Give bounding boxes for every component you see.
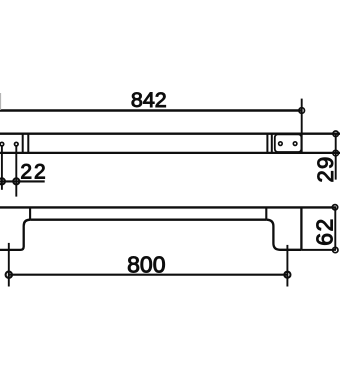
dim 29 line bbox=[335, 134, 337, 180]
svg-text:22: 22 bbox=[20, 161, 47, 184]
dim 842 right terminator bbox=[299, 108, 305, 114]
dim 62 terminator 2 bbox=[333, 247, 338, 252]
dim 22 line bbox=[0, 180, 45, 182]
dim 29 terminator 1 bbox=[333, 131, 339, 137]
left bracket line 1 bbox=[22, 134, 24, 153]
dim 800 left extension line bbox=[8, 243, 10, 287]
dim 22 extension line 2 bbox=[15, 146, 17, 196]
dim 29 terminator 2 bbox=[333, 150, 339, 156]
dim 800 right extension line bbox=[286, 245, 288, 287]
dim 842 right extension line bbox=[301, 99, 303, 153]
plan right step line bbox=[265, 207, 267, 219]
dim 842 line bbox=[0, 109, 302, 111]
left plate screw hole 2 bbox=[14, 142, 18, 146]
plan right post outline bbox=[266, 220, 301, 250]
dim 62 terminator 1 bbox=[332, 205, 337, 210]
plan left post outline bbox=[0, 220, 30, 250]
dim 22 terminator 2 bbox=[13, 178, 19, 184]
right bracket line 1 bbox=[266, 134, 268, 153]
right bracket line 2 bbox=[271, 134, 273, 153]
plan bar lower edge bbox=[30, 219, 266, 221]
left bracket line 2 bbox=[27, 134, 29, 153]
right plate outline bbox=[275, 134, 302, 152]
dim 22 terminator 1 bbox=[0, 178, 5, 184]
plan right end cap bbox=[300, 207, 302, 249]
dim 800 terminator 1 bbox=[6, 272, 12, 278]
svg-text:62: 62 bbox=[312, 217, 338, 245]
plan front edge extension to 62 dim bbox=[301, 249, 336, 251]
dim 22 extension line 1 bbox=[1, 146, 3, 190]
plan wall line bbox=[0, 206, 336, 208]
svg-text:842: 842 bbox=[131, 88, 167, 112]
svg-text:29: 29 bbox=[313, 156, 338, 183]
right plate screw hole 2 bbox=[293, 142, 297, 146]
svg-text:800: 800 bbox=[127, 251, 165, 277]
dim 800 terminator 2 bbox=[284, 272, 290, 278]
dim 62 line bbox=[334, 207, 336, 250]
bar top edge (front view) bbox=[0, 133, 340, 135]
left plate screw hole 1 bbox=[0, 142, 4, 146]
plan left step line bbox=[29, 207, 31, 219]
dim 800 line bbox=[9, 274, 288, 276]
bar bottom edge (front view) bbox=[0, 152, 340, 154]
dim 842 left cut extension bbox=[0, 93, 2, 110]
right plate screw hole 1 bbox=[279, 142, 283, 146]
